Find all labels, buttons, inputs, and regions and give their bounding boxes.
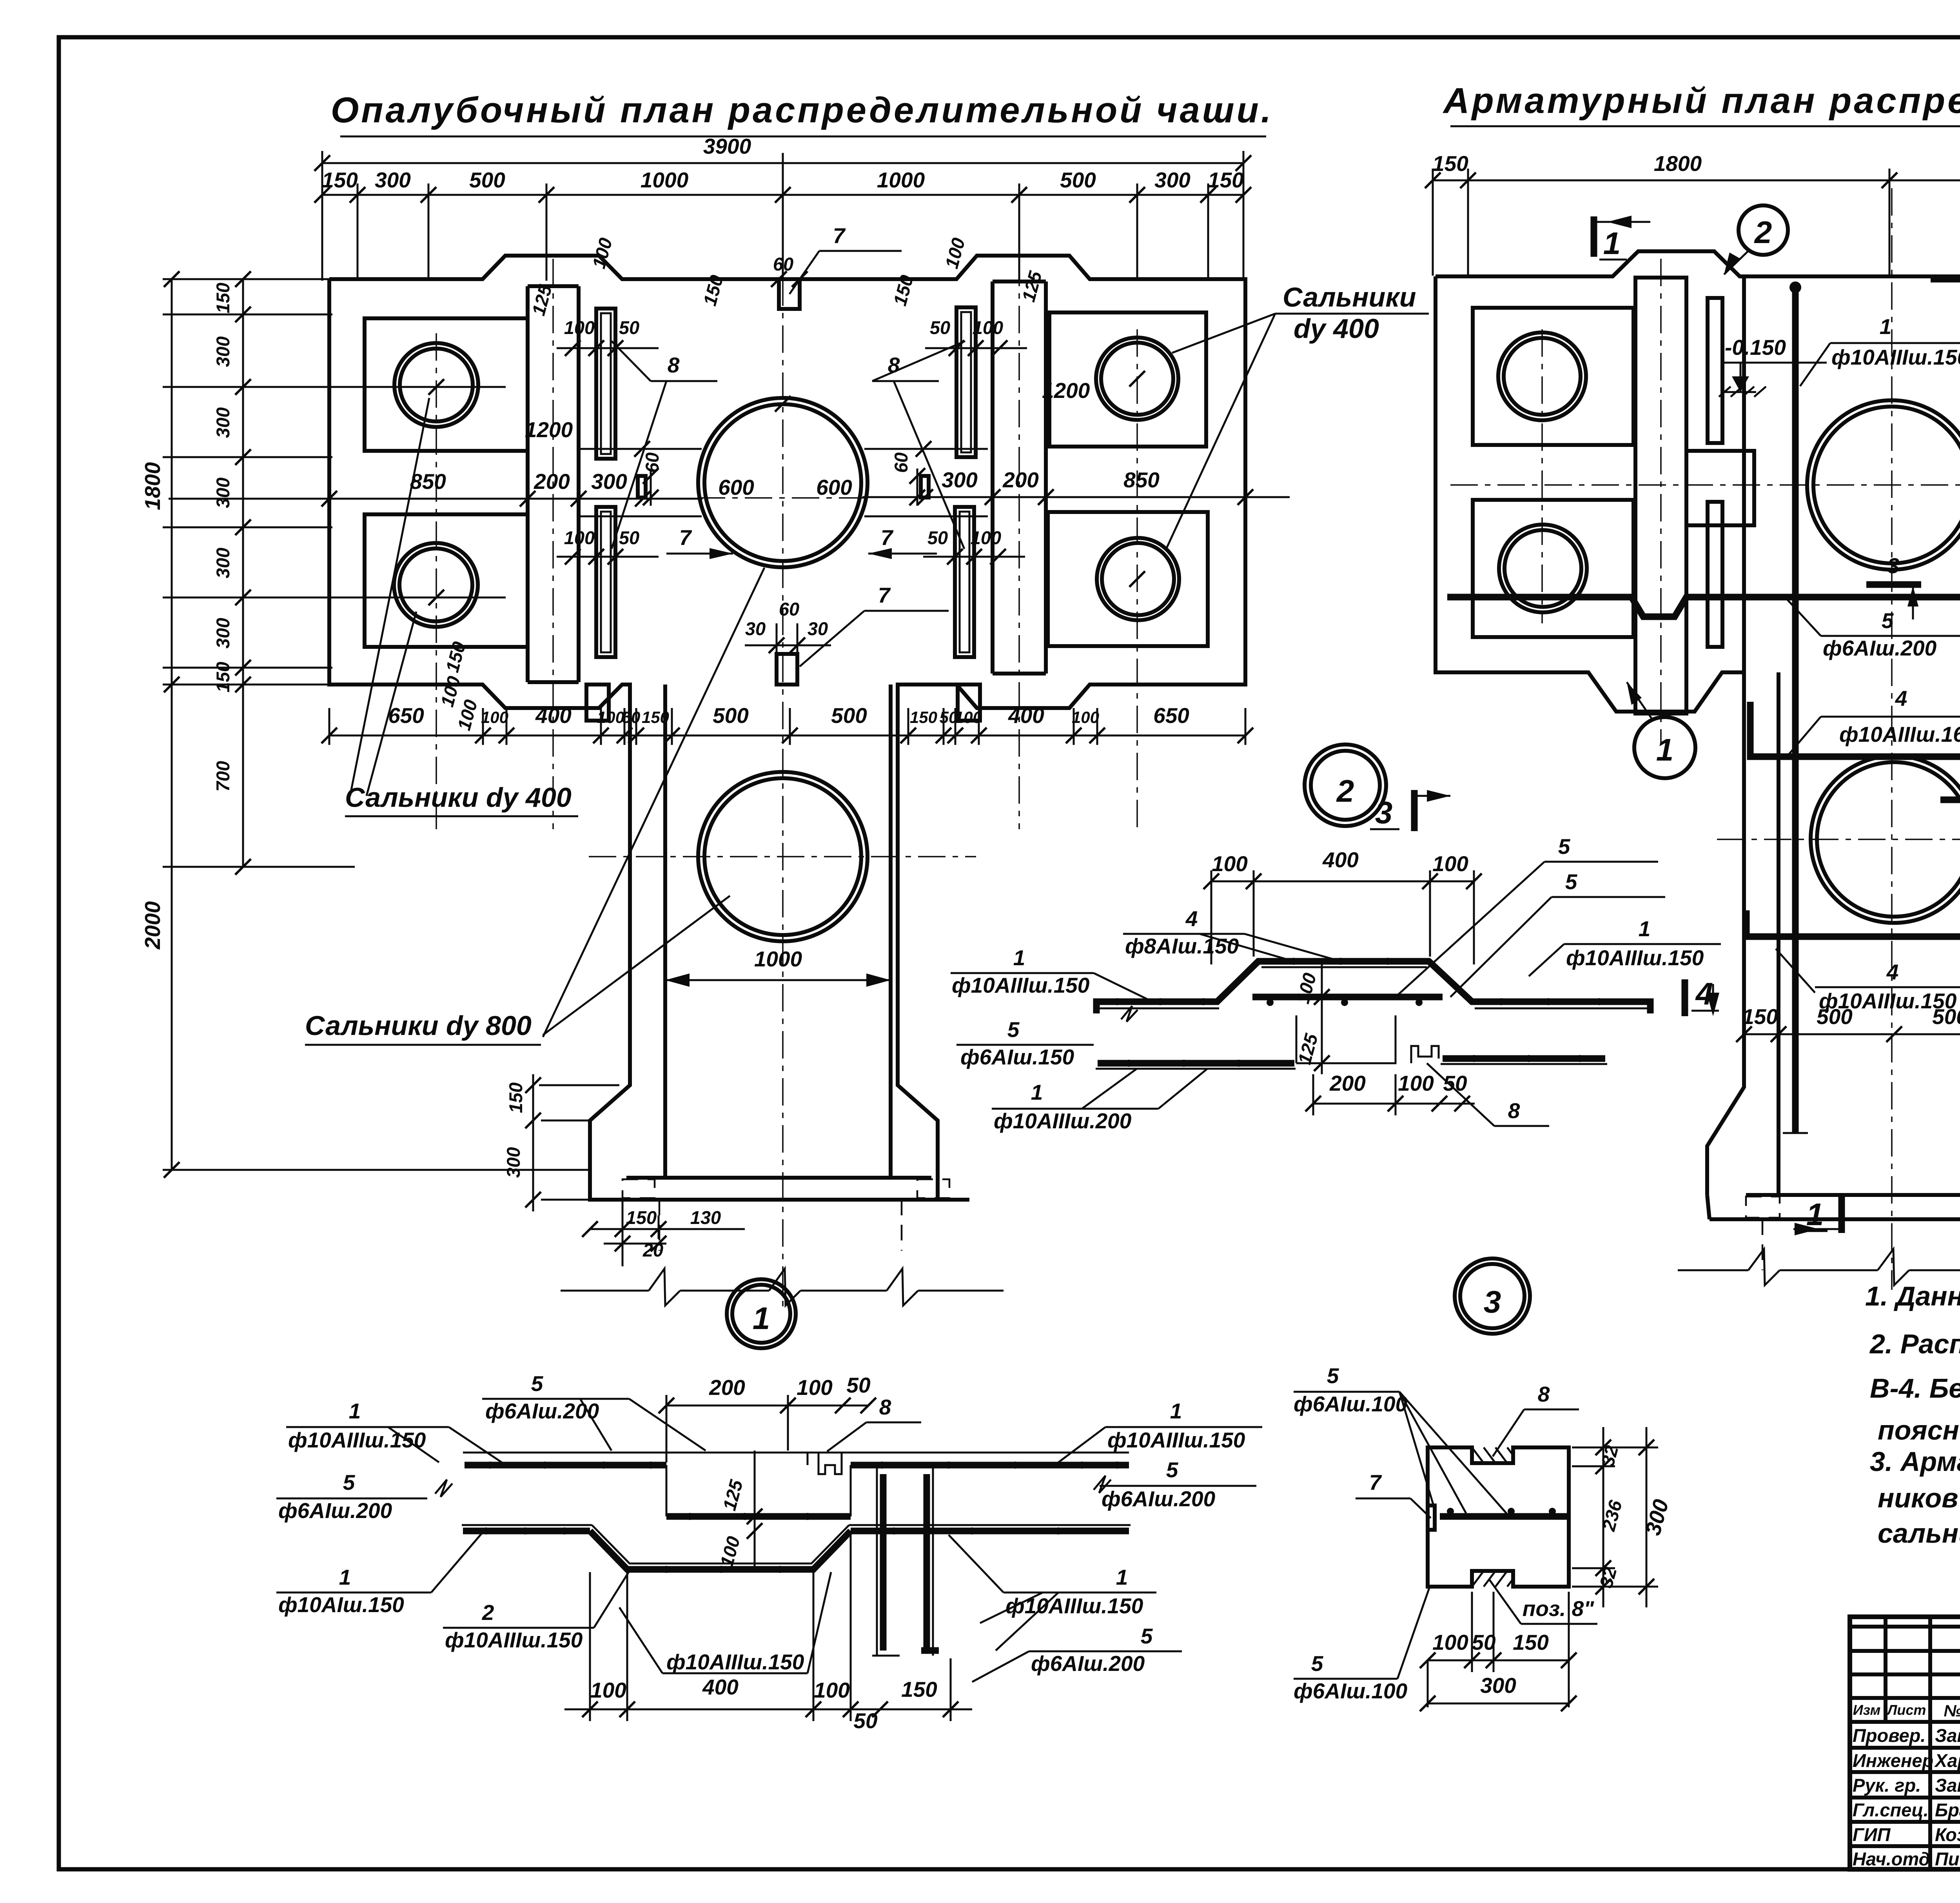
svg-text:1000: 1000: [754, 947, 802, 971]
svg-text:100: 100: [1432, 1630, 1468, 1654]
svg-text:100: 100: [1432, 852, 1468, 876]
svg-text:5: 5: [531, 1371, 544, 1396]
left plan: bottom dimension row: [329, 735, 1245, 737]
left plan: left column strip: [526, 286, 530, 682]
svg-text:Сальники dy 800: Сальники dy 800: [305, 1010, 532, 1041]
left plan: base hidden pockets: [622, 1179, 655, 1198]
left plan: lower-left chamber: [365, 514, 528, 647]
svg-text:500: 500: [713, 703, 749, 728]
left plan: stem gland circle dy800: [698, 772, 867, 941]
left plan: section circle 1: [727, 1279, 796, 1348]
svg-text:50: 50: [846, 1373, 871, 1397]
svg-text:2: 2: [1754, 215, 1772, 250]
section 1: bottom dims 100/400/100/150/50: [564, 1709, 972, 1711]
svg-text:сальника.: сальника.: [1878, 1518, 1960, 1549]
svg-text:1800: 1800: [140, 462, 165, 510]
title block: outer box: [1850, 1617, 1960, 1869]
svg-text:100: 100: [590, 1678, 626, 1702]
reinforcement plan: rebar bar1 thick vertical: [1792, 285, 1799, 1133]
svg-text:2: 2: [1336, 774, 1354, 808]
svg-text:ф8АIш.150: ф8АIш.150: [1125, 934, 1239, 958]
svg-text:100: 100: [1072, 708, 1099, 726]
svg-text:Зантберг: Зантберг: [1935, 1725, 1960, 1746]
svg-text:50: 50: [1472, 1630, 1496, 1654]
reinforcement plan: thin joint strips: [1708, 298, 1722, 443]
svg-text:500: 500: [1932, 1004, 1960, 1029]
svg-text:1: 1: [1013, 946, 1025, 970]
reinforcement plan: section mark 1 top: [1591, 216, 1597, 257]
svg-text:4: 4: [1185, 906, 1198, 931]
left plan: side tabs 60: [638, 476, 646, 498]
svg-text:100: 100: [564, 317, 595, 338]
section 2: bottom slab bar1 left: [1098, 1060, 1294, 1067]
svg-text:50: 50: [619, 527, 639, 548]
svg-text:600: 600: [816, 475, 852, 499]
left plan: lower-right chamber: [1048, 512, 1208, 646]
svg-text:ф10АIIIш.150: ф10АIIIш.150: [952, 973, 1090, 997]
formwork plan: outline of distribution bowl: [329, 256, 1245, 1200]
reinforcement plan: center pier tabs: [1686, 451, 1754, 525]
left plan: gland circle dy400 upper-right: [1096, 338, 1178, 420]
svg-text:50: 50: [1443, 1071, 1467, 1095]
left plan: upper-right chamber: [1049, 312, 1206, 447]
reinforcement plan: base slab: [1746, 1193, 1960, 1197]
svg-text:100: 100: [814, 1678, 850, 1702]
svg-text:Провер.: Провер.: [1853, 1725, 1926, 1746]
svg-text:300: 300: [375, 168, 411, 192]
svg-text:3. Арматуру днища чаши в м: 3. Арматуру днища чаши в местах прохода …: [1870, 1446, 1960, 1477]
section 2: top slab rebar polyline bar1: [1096, 961, 1650, 1013]
reinforcement plan: stem U-bar top: [1750, 702, 1960, 757]
left plan: top tab 60 + label 7: [779, 279, 800, 309]
left plan: gland circle dy400 lower-left: [394, 543, 478, 627]
left plan: centerlines: [782, 184, 784, 1309]
svg-text:1. Данный лист комплектен с ли: 1. Данный лист комплектен с листами: [1865, 1281, 1960, 1311]
svg-text:1200: 1200: [1042, 378, 1090, 403]
svg-text:ф10АIIIш.200: ф10АIIIш.200: [994, 1109, 1132, 1133]
svg-text:600: 600: [718, 475, 754, 499]
svg-text:1: 1: [349, 1399, 361, 1423]
svg-text:5: 5: [1558, 834, 1571, 859]
svg-text:5: 5: [1166, 1458, 1179, 1482]
reinforcement plan: centerlines: [1891, 188, 1893, 1290]
svg-text:150: 150: [1513, 1630, 1549, 1654]
reinforcement plan: stem gland circle: [1811, 756, 1960, 923]
title block: signature table verticals: [1884, 1617, 1887, 1722]
svg-text:ф10АIIIш.150: ф10АIIIш.150: [1005, 1594, 1143, 1618]
svg-text:150: 150: [910, 708, 937, 726]
section 2: dim 100/400/100: [1211, 881, 1474, 882]
section 3: right dims 32/236/32/300: [1602, 1427, 1604, 1607]
svg-text:1: 1: [1031, 1080, 1043, 1104]
svg-text:650: 650: [388, 703, 424, 728]
svg-text:30: 30: [745, 618, 766, 639]
title block: signature table horizontals: [1850, 1625, 1960, 1629]
svg-text:1000: 1000: [641, 168, 689, 192]
svg-text:Опалубочный план распределит: Опалубочный план распределительной чаши.: [331, 90, 1274, 130]
svg-text:3: 3: [1484, 1284, 1501, 1319]
svg-text:Сальники dy 400: Сальники dy 400: [345, 782, 572, 813]
svg-text:Нач.отд: Нач.отд: [1853, 1849, 1930, 1869]
svg-text:ф10АIIIш.160: ф10АIIIш.160: [1839, 722, 1960, 746]
svg-text:7: 7: [679, 525, 692, 550]
svg-text:4: 4: [1895, 686, 1907, 710]
svg-text:7: 7: [878, 583, 891, 607]
svg-text:30: 30: [808, 618, 828, 639]
svg-text:Лист: Лист: [1886, 1702, 1926, 1718]
svg-text:150: 150: [1742, 1004, 1778, 1029]
svg-text:5: 5: [1327, 1364, 1339, 1388]
reinforcement plan: section mark 1 bottom: [1838, 1195, 1845, 1233]
left plan: gland circle dy400 lower-right: [1097, 538, 1179, 620]
svg-text:пояснительной записке.: пояснительной записке.: [1878, 1415, 1960, 1445]
svg-text:850: 850: [410, 469, 446, 494]
svg-text:8: 8: [1508, 1099, 1520, 1123]
reinforcement plan: bar3 mark center: [1866, 581, 1921, 588]
svg-text:150: 150: [212, 662, 233, 692]
svg-text:2. Распределительную чашу вы: 2. Распределительную чашу выполнять из б…: [1869, 1329, 1960, 1359]
svg-text:5: 5: [1565, 870, 1578, 894]
svg-text:300: 300: [942, 468, 978, 492]
svg-text:150: 150: [1208, 168, 1244, 192]
svg-text:Инженер: Инженер: [1853, 1750, 1933, 1771]
section 1: dims 200/100/50 top: [666, 1405, 868, 1407]
svg-text:50: 50: [927, 527, 948, 548]
svg-text:ф10АIш.150: ф10АIш.150: [278, 1592, 404, 1617]
section 3: thick bar: [1440, 1513, 1569, 1520]
svg-text:400: 400: [702, 1675, 739, 1699]
svg-text:150: 150: [642, 708, 669, 726]
left plan: mid 850/200/300/600 dimension line: [169, 498, 702, 500]
section 1: top slab left: [463, 1452, 1129, 1454]
svg-text:60: 60: [891, 452, 911, 473]
svg-text:ф10АIIIш.150: ф10АIIIш.150: [1831, 345, 1960, 369]
left plan: central gland circle dy800: [698, 398, 867, 567]
section 2: dim 200/100/50 bottom: [1313, 1103, 1475, 1105]
section 2: groove pos.8: [1411, 1046, 1439, 1063]
svg-text:Козловский: Козловский: [1935, 1824, 1960, 1845]
svg-text:100: 100: [971, 527, 1001, 548]
reinforcement plan: ground break line: [1678, 1269, 1748, 1271]
svg-text:7: 7: [1369, 1470, 1382, 1494]
svg-text:5: 5: [1007, 1017, 1020, 1042]
svg-text:5: 5: [1141, 1624, 1153, 1648]
section 3: detail circle label: [1455, 1258, 1530, 1334]
svg-text:7: 7: [833, 223, 846, 248]
section 3: bottom dims 100/50/150/300: [1428, 1660, 1569, 1661]
svg-text:Рук. гр.: Рук. гр.: [1853, 1775, 1921, 1796]
section 2: middle step outline: [1296, 1015, 1396, 1063]
svg-text:150: 150: [626, 1207, 657, 1228]
svg-text:ников вырезать по месту и: ников вырезать по месту и приварить к ко…: [1878, 1483, 1960, 1513]
svg-text:1: 1: [1170, 1399, 1182, 1423]
svg-text:300: 300: [503, 1147, 524, 1178]
left plan: 600/600 dim: [623, 448, 702, 450]
section 1: middle lowered band: [666, 1513, 851, 1520]
svg-text:3900: 3900: [703, 134, 751, 158]
svg-text:-0.150: -0.150: [1725, 335, 1786, 360]
svg-text:1000: 1000: [877, 168, 925, 192]
svg-text:1200: 1200: [525, 418, 573, 442]
section 2: bottom slab bar right: [1443, 1055, 1605, 1062]
svg-text:ф10АIIIш.150: ф10АIIIш.150: [666, 1650, 804, 1674]
svg-text:100: 100: [973, 317, 1003, 338]
svg-text:dy 400: dy 400: [1294, 313, 1379, 344]
svg-text:ф6АIш.200: ф6АIш.200: [1031, 1651, 1145, 1676]
svg-text:8: 8: [879, 1395, 891, 1419]
svg-text:Пичахчи: Пичахчи: [1935, 1849, 1960, 1869]
svg-text:50: 50: [930, 317, 950, 338]
svg-text:150: 150: [901, 1677, 937, 1701]
svg-text:5: 5: [343, 1470, 356, 1494]
svg-text:ф6АIш.200: ф6АIш.200: [1823, 636, 1937, 660]
left plan: 1000 stem dim with arrows: [665, 979, 891, 981]
svg-text:400: 400: [1322, 848, 1359, 872]
left plan: bottom tab 60/30/30 + label 7: [777, 654, 797, 685]
reinforcement plan: column strips: [1635, 278, 1686, 714]
svg-text:100: 100: [1212, 852, 1248, 876]
reinforcement plan: detail circle 2 pointer: [1739, 205, 1788, 255]
svg-text:Сальники: Сальники: [1283, 282, 1416, 312]
svg-text:850: 850: [1123, 468, 1160, 492]
section 3: groove hatch top: [1472, 1447, 1513, 1463]
svg-text:1: 1: [1880, 314, 1892, 339]
svg-text:150: 150: [322, 168, 358, 192]
reinforcement plan: stem U-bar bottom: [1746, 910, 1960, 937]
section 3: block outline with grooves: [1428, 1447, 1569, 1587]
svg-text:ф6АIш.100: ф6АIш.100: [1294, 1679, 1408, 1703]
reinforcement plan: rebar bar5 horizontal with jogs: [1447, 597, 1960, 617]
svg-text:300: 300: [1480, 1673, 1516, 1698]
svg-text:5: 5: [1311, 1651, 1324, 1676]
svg-text:200: 200: [534, 469, 570, 494]
svg-text:2: 2: [482, 1600, 494, 1625]
svg-text:300: 300: [212, 407, 233, 438]
left plan: stem inner walls: [663, 685, 667, 1178]
svg-text:60: 60: [779, 599, 799, 619]
svg-text:1: 1: [753, 1301, 770, 1336]
svg-text:500: 500: [1060, 168, 1096, 192]
left plan: overall dimension 3900: [322, 162, 1243, 164]
svg-text:50: 50: [853, 1709, 878, 1733]
svg-text:150: 150: [1432, 151, 1468, 176]
section 1: label ф10АIIIш.150 BM: [662, 1672, 808, 1674]
svg-text:8: 8: [668, 353, 680, 377]
svg-text:Браславский: Браславский: [1935, 1799, 1960, 1820]
svg-text:300: 300: [212, 618, 233, 648]
left plan: top dimension row: [322, 194, 1243, 196]
reinforcement plan: gland circles dy400: [1498, 332, 1586, 420]
left plan: ground break line: [561, 1290, 649, 1292]
left plan: left dimension column: [171, 279, 173, 1170]
svg-text:300: 300: [591, 469, 627, 494]
left plan: thin joint strips: [596, 309, 615, 459]
svg-text:150: 150: [505, 1082, 526, 1113]
svg-text:60: 60: [642, 452, 662, 473]
svg-text:500: 500: [469, 168, 505, 192]
svg-text:№ докум.: № докум.: [1944, 1701, 1960, 1720]
svg-text:500: 500: [831, 703, 867, 728]
svg-text:200: 200: [709, 1375, 745, 1400]
section 3: side plate 7: [1428, 1505, 1435, 1530]
svg-text:700: 700: [212, 761, 233, 792]
svg-text:400: 400: [535, 703, 572, 728]
svg-text:400: 400: [1008, 703, 1044, 728]
section 1: bottom slab with dip: [463, 1528, 590, 1534]
svg-text:3: 3: [1887, 554, 1900, 578]
svg-text:2000: 2000: [140, 901, 165, 950]
reinforcement plan: section mark 4 left: [1682, 979, 1688, 1016]
section 1: groove pos 8: [808, 1453, 842, 1474]
section 2: thin surface lines: [1094, 1008, 1219, 1010]
svg-text:ф6АIш.200: ф6АIш.200: [1102, 1487, 1216, 1511]
svg-text:ф10АIIIш.150: ф10АIIIш.150: [1566, 946, 1704, 970]
svg-text:1: 1: [339, 1565, 351, 1589]
svg-text:300: 300: [212, 336, 233, 367]
svg-text:1: 1: [1806, 1197, 1824, 1232]
svg-text:ф6АIш.150: ф6АIш.150: [960, 1045, 1074, 1069]
left plan: base slab top edge: [626, 1176, 931, 1180]
svg-text:ф10АIIIш.150: ф10АIIIш.150: [445, 1628, 583, 1652]
svg-text:1: 1: [1603, 226, 1621, 261]
svg-text:ф10АIIIш.150: ф10АIIIш.150: [1107, 1428, 1245, 1452]
svg-text:1: 1: [1639, 917, 1651, 941]
svg-text:5: 5: [1882, 608, 1894, 633]
svg-text:60: 60: [773, 254, 793, 274]
svg-text:Харченко: Харченко: [1934, 1750, 1960, 1771]
left plan: stem top joint plates: [586, 685, 609, 721]
svg-text:поз. 8": поз. 8": [1523, 1596, 1594, 1621]
reinforcement plan: top dim row 150/1800/1800/150: [1433, 180, 1960, 182]
svg-text:4: 4: [1886, 960, 1899, 984]
svg-text:ф6АIш.100: ф6АIш.100: [1294, 1392, 1408, 1416]
left plan: gland circle dy400 upper-left: [394, 343, 478, 427]
svg-text:100: 100: [797, 1375, 833, 1400]
svg-text:200: 200: [1329, 1071, 1366, 1095]
svg-text:8: 8: [1538, 1382, 1550, 1406]
reinforcement plan: stem dim 150/500/500/150: [1744, 1033, 1960, 1035]
svg-text:1800: 1800: [1654, 151, 1702, 176]
svg-text:1: 1: [1116, 1565, 1128, 1589]
section 2: under-plateau bar5: [1252, 994, 1443, 1001]
svg-text:100: 100: [1398, 1071, 1434, 1095]
svg-text:300: 300: [1154, 168, 1191, 192]
section 1: right T-wall: [876, 1465, 878, 1656]
svg-text:300: 300: [212, 478, 233, 508]
svg-text:300: 300: [212, 548, 233, 578]
svg-text:Арматурный план распределите: Арматурный план распределительной чаши: [1443, 81, 1960, 121]
section 2: detail circle label: [1305, 744, 1386, 826]
svg-text:1: 1: [1656, 732, 1674, 767]
svg-text:650: 650: [1153, 703, 1189, 728]
svg-text:Зантберг: Зантберг: [1935, 1775, 1960, 1796]
svg-text:7: 7: [881, 525, 894, 550]
svg-text:200: 200: [1002, 468, 1039, 492]
svg-text:В-4. Бетон по морозостойкос: В-4. Бетон по морозостойкости принять по: [1870, 1373, 1960, 1404]
reinforcement plan: outline: [1436, 251, 1960, 1195]
svg-text:ф6АIш.200: ф6АIш.200: [278, 1498, 392, 1523]
reinforcement plan: rebar bar3 bracket: [1931, 279, 1960, 1133]
reinforcement plan: central gland circle dy800: [1807, 400, 1960, 570]
left plan: right column strip: [991, 281, 995, 674]
svg-text:100: 100: [481, 708, 508, 726]
svg-text:100: 100: [564, 527, 595, 548]
svg-text:500: 500: [1817, 1004, 1853, 1029]
reinforcement plan: detail circle 1: [1634, 717, 1695, 778]
reinforcement plan: section mark 3 left: [1411, 790, 1418, 831]
left plan: upper-left chamber: [365, 318, 528, 451]
reinforcement plan: chute walls within plan: [1742, 276, 1746, 672]
left plan: mid horizontal chamber lines: [579, 448, 702, 450]
svg-text:ГИП: ГИП: [1853, 1824, 1891, 1845]
svg-text:Изм: Изм: [1853, 1702, 1880, 1718]
reinforcement plan: chambers: [1473, 308, 1633, 445]
svg-text:130: 130: [690, 1207, 721, 1228]
svg-text:50: 50: [619, 317, 639, 338]
svg-text:150: 150: [212, 283, 233, 313]
svg-text:Гл.спец.: Гл.спец.: [1853, 1799, 1929, 1820]
reinforcement plan: stem inner walls: [1777, 672, 1780, 1195]
